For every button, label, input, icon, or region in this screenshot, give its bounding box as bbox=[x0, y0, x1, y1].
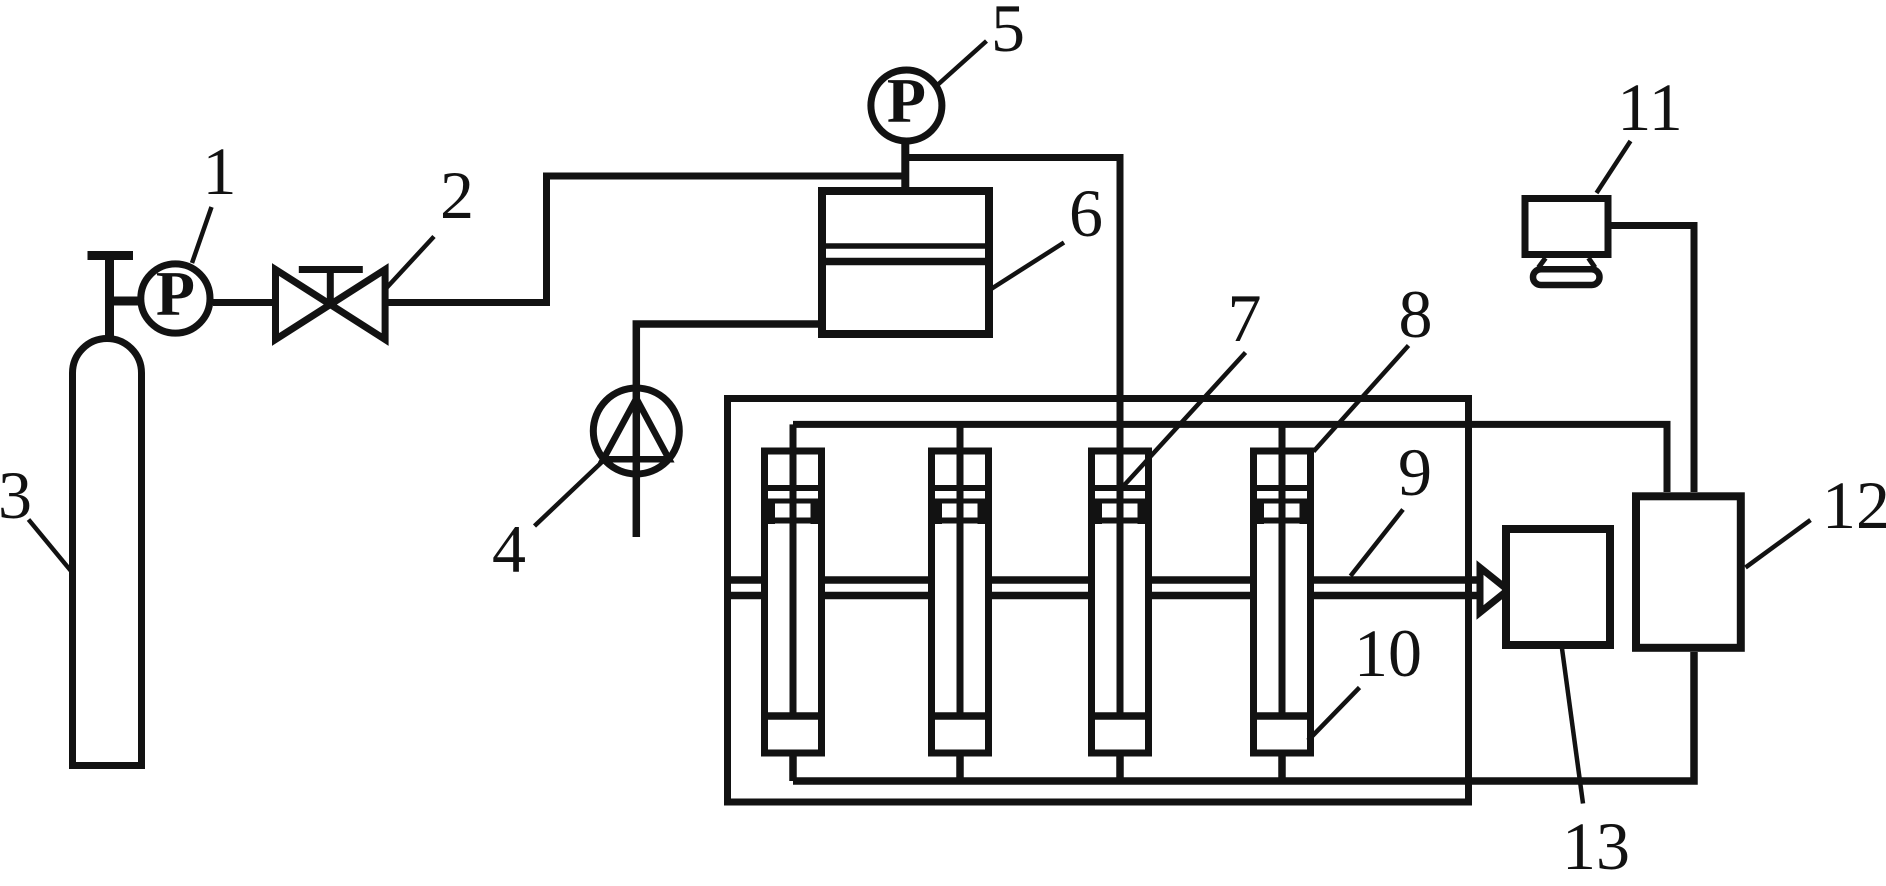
valve 2 right triangle bbox=[330, 270, 385, 340]
oven big rectangle bbox=[728, 399, 1469, 803]
computer 11 leg left bbox=[1539, 258, 1546, 268]
cylinder cap line bbox=[1095, 485, 1145, 491]
svg-text:8: 8 bbox=[1399, 276, 1433, 352]
svg-text:9: 9 bbox=[1398, 434, 1432, 510]
core holder cylinder (first) 7 bbox=[761, 424, 825, 781]
piston seal block right bbox=[1300, 499, 1315, 525]
leader line 1 bbox=[192, 207, 212, 263]
piston seal block left bbox=[1250, 499, 1264, 525]
gas cylinder valve stem bbox=[105, 256, 114, 342]
svg-text:5: 5 bbox=[991, 0, 1025, 66]
pressure gauge P 5 bbox=[871, 70, 942, 141]
svg-text:6: 6 bbox=[1069, 175, 1103, 251]
bottom cap 10 top line bbox=[768, 712, 818, 720]
pipe 9 lower line bbox=[727, 592, 1477, 600]
piston seal block left bbox=[1088, 499, 1102, 525]
piston seal block right bbox=[1138, 499, 1153, 525]
cylinder body bbox=[932, 451, 989, 753]
cylinder cap line bbox=[768, 485, 818, 491]
cylinder bottom stem wire bbox=[1116, 753, 1124, 781]
piston seal bottom line bbox=[765, 518, 821, 524]
pressure gauge P 1 bbox=[141, 264, 210, 333]
core holder cylinder (third) 7 bbox=[1088, 424, 1152, 781]
cylinder seal line bbox=[768, 499, 818, 504]
cylinder top stem wire bbox=[957, 424, 964, 451]
computer 11 screen bbox=[1525, 199, 1608, 255]
cylinder bottom stem wire bbox=[789, 753, 797, 781]
bottom cap 10 top line bbox=[935, 712, 985, 720]
cylinder center tube bbox=[1117, 451, 1124, 716]
box 6 inner line lower bbox=[826, 258, 985, 266]
leader line 4 bbox=[535, 461, 604, 526]
bottom cap 10 top line bbox=[1095, 712, 1145, 720]
gauge 5 stem bbox=[901, 140, 909, 191]
cylinder cap line bbox=[935, 485, 985, 491]
container box 6 bbox=[822, 191, 989, 334]
cylinder center tube bbox=[1279, 451, 1286, 716]
pipe 9 upper line bbox=[727, 576, 1477, 584]
box 12 bbox=[1636, 496, 1741, 648]
leader line 6 bbox=[990, 243, 1065, 291]
leader line 3 bbox=[29, 520, 72, 572]
leader line 8 bbox=[1314, 346, 1409, 452]
pump 4 circle bbox=[593, 388, 679, 474]
svg-text:13: 13 bbox=[1562, 808, 1630, 884]
wire gauge 1 to valve 2 bbox=[213, 299, 276, 306]
piston seal bottom line bbox=[932, 518, 988, 524]
bottom manifold to box 12 bbox=[793, 652, 1694, 781]
cylinder body bbox=[1092, 451, 1149, 753]
piston seal block left bbox=[928, 499, 942, 525]
arrowhead of pipe 9 bbox=[1480, 568, 1508, 613]
wire box 6 to pump 4 bbox=[636, 324, 822, 537]
computer 11 base bbox=[1533, 269, 1600, 285]
svg-text:11: 11 bbox=[1617, 69, 1682, 145]
pump 4 triangle bbox=[603, 399, 669, 460]
core holder cylinder (second) bbox=[928, 424, 992, 781]
svg-text:P: P bbox=[156, 258, 195, 329]
gas cylinder valve T-bar bbox=[88, 251, 134, 260]
svg-text:1: 1 bbox=[203, 133, 237, 209]
cylinder top stem wire bbox=[1279, 424, 1286, 451]
gas cylinder 3 bbox=[73, 339, 142, 766]
cylinder center tube bbox=[957, 451, 964, 716]
top manifold to box 12 bbox=[793, 424, 1667, 492]
cylinder top stem wire bbox=[1117, 424, 1124, 451]
wire computer to box 12 bbox=[1611, 226, 1694, 493]
box 6 inner line upper bbox=[826, 243, 985, 249]
bottom cap 10 top line bbox=[1257, 712, 1307, 720]
leader line 11 bbox=[1597, 141, 1631, 193]
leader line 9 bbox=[1351, 510, 1404, 577]
cylinder seal line bbox=[1257, 499, 1307, 504]
cylinder body bbox=[1254, 451, 1311, 753]
leader line 13 bbox=[1562, 649, 1583, 804]
computer 11 leg right bbox=[1589, 258, 1596, 268]
core holder cylinder (fourth) 8 bbox=[1250, 424, 1314, 781]
cylinder top stem wire bbox=[790, 424, 797, 451]
svg-text:4: 4 bbox=[492, 511, 526, 587]
leader line 7 bbox=[1123, 353, 1246, 487]
cylinder seal line bbox=[935, 499, 985, 504]
cylinder body bbox=[765, 451, 822, 753]
valve 2 left triangle bbox=[276, 270, 331, 340]
svg-text:10: 10 bbox=[1354, 615, 1422, 691]
leader line 12 bbox=[1746, 520, 1811, 568]
svg-text:12: 12 bbox=[1822, 467, 1886, 543]
cylinder center tube bbox=[790, 451, 797, 716]
svg-text:2: 2 bbox=[440, 157, 474, 233]
valve 2 handle stem bbox=[327, 270, 334, 305]
piston seal block right bbox=[978, 499, 993, 525]
cylinder bottom stem wire bbox=[1278, 753, 1286, 781]
piston seal bottom line bbox=[1092, 518, 1148, 524]
valve 2 handle bar bbox=[299, 266, 363, 273]
svg-text:3: 3 bbox=[0, 457, 32, 533]
svg-text:7: 7 bbox=[1228, 280, 1262, 356]
leader line 2 bbox=[386, 237, 435, 290]
wire gauge 5 branch to cylinder 7 line bbox=[905, 158, 1120, 452]
cylinder cap line bbox=[1257, 485, 1307, 491]
piston seal bottom line bbox=[1254, 518, 1310, 524]
wire valve 2 to gauge 5 stem bbox=[385, 176, 905, 303]
cylinder bottom stem wire bbox=[956, 753, 964, 781]
leader line 10 bbox=[1308, 688, 1360, 741]
piston seal block right bbox=[811, 499, 826, 525]
leader line 5 bbox=[938, 41, 987, 85]
box 13 bbox=[1506, 529, 1610, 645]
piston seal block left bbox=[761, 499, 775, 525]
cylinder seal line bbox=[1095, 499, 1145, 504]
svg-text:P: P bbox=[887, 65, 926, 136]
wire tank to gauge 1 bbox=[105, 297, 142, 306]
